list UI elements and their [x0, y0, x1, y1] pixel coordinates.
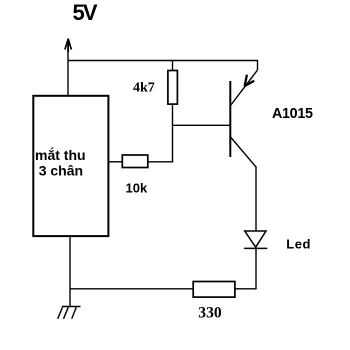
wire: receiver box bottom to ground: [69, 236, 71, 307]
svg-text:5V: 5V: [73, 0, 98, 25]
svg-text:Led: Led: [286, 237, 311, 252]
resistor R2 10k: [122, 155, 148, 168]
LED D1 cathode bar: [244, 247, 267, 249]
svg-text:A1015: A1015: [272, 106, 313, 122]
LED D1 triangle: [245, 231, 266, 247]
transistor Q1 emitter arrowhead (PNP, points to base): [244, 75, 254, 87]
resistor R1 4k7: [168, 71, 178, 105]
wire: 5V arrow down to receiver box top: [67, 45, 69, 96]
wire: receiver box to 10k: [108, 161, 123, 163]
wire: bottom return wire: [70, 288, 194, 290]
svg-text:4k7: 4k7: [133, 81, 155, 96]
svg-text:330: 330: [198, 305, 222, 322]
5V arrow: [65, 39, 72, 53]
resistor R3 330: [193, 282, 235, 298]
wire: 4k7 bottom lead / node column: [172, 104, 174, 162]
svg-text:mắt thu: mắt thu: [35, 146, 86, 163]
wire: top supply rail: [68, 61, 258, 71]
svg-text:3 chân: 3 chân: [39, 163, 83, 179]
wire: 10k to node column: [148, 161, 173, 163]
transistor Q1 emitter: [231, 70, 258, 106]
transistor Q1 base bar: [229, 81, 231, 157]
wire: LED to 330 resistor corner: [235, 248, 256, 288]
wire: rail to 4k7: [172, 61, 174, 72]
svg-text:10k: 10k: [126, 181, 148, 196]
wire: collector down to LED: [255, 167, 257, 232]
wire: base wire node to transistor base: [173, 124, 231, 126]
IR receiver box U1: [33, 96, 108, 236]
transistor Q1 collector: [231, 137, 257, 167]
ground symbol: [58, 307, 81, 319]
